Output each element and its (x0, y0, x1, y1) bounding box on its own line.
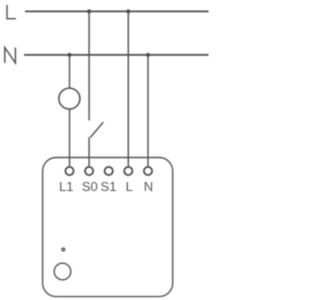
svg-text:S0: S0 (82, 179, 98, 194)
svg-text:L: L (126, 179, 133, 194)
svg-text:L1: L1 (59, 179, 73, 194)
svg-text:N: N (144, 179, 153, 194)
svg-text:S1: S1 (101, 179, 117, 194)
